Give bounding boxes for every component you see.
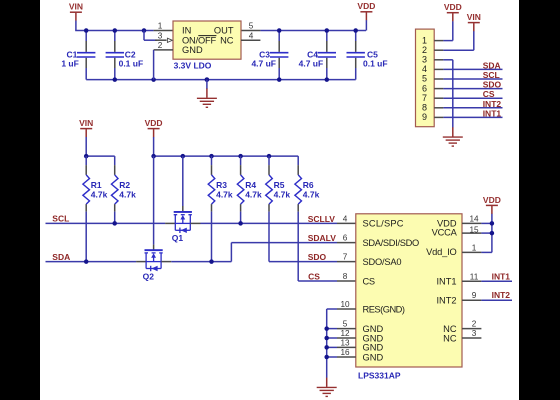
svg-text:CS: CS [363,276,375,286]
svg-text:Vdd_IO: Vdd_IO [426,247,457,257]
svg-text:5: 5 [343,320,348,329]
svg-text:INT1: INT1 [436,277,456,287]
svg-text:1: 1 [158,22,163,31]
svg-text:4.7k: 4.7k [274,189,291,199]
svg-text:IN: IN [182,26,191,36]
svg-text:0.1 uF: 0.1 uF [119,59,144,69]
svg-text:GND: GND [363,352,384,362]
svg-text:4.7k: 4.7k [119,189,136,199]
svg-text:13: 13 [340,338,350,347]
svg-text:4.7k: 4.7k [91,189,108,199]
svg-text:4.7k: 4.7k [216,189,233,199]
svg-text:8: 8 [343,272,348,281]
svg-text:Q2: Q2 [143,271,155,281]
svg-text:1: 1 [472,243,477,252]
svg-text:9: 9 [422,112,427,122]
svg-text:CS: CS [483,89,495,99]
svg-text:8: 8 [422,103,427,113]
svg-text:2: 2 [422,45,427,55]
svg-text:5: 5 [249,22,254,31]
svg-text:VDD: VDD [483,195,501,205]
svg-text:GND: GND [182,45,203,55]
svg-text:6: 6 [343,234,348,243]
svg-text:10: 10 [340,300,350,309]
svg-text:SCL: SCL [52,214,69,224]
svg-text:16: 16 [340,348,350,357]
svg-text:2: 2 [472,320,477,329]
svg-text:4.7 uF: 4.7 uF [251,59,276,69]
svg-text:3: 3 [158,31,163,40]
svg-text:INT2: INT2 [436,296,456,306]
svg-text:4.7k: 4.7k [303,189,320,199]
svg-text:NC: NC [443,333,457,343]
svg-text:5: 5 [422,74,427,84]
svg-text:1: 1 [422,35,427,45]
svg-text:SDALV: SDALV [308,233,337,243]
svg-text:SDO/SA0: SDO/SA0 [363,257,402,267]
svg-text:OUT: OUT [214,26,234,36]
svg-text:2: 2 [158,41,163,50]
svg-text:VDD: VDD [145,118,163,128]
svg-text:4.7k: 4.7k [245,189,262,199]
svg-text:VCCA: VCCA [432,228,458,238]
svg-text:7: 7 [422,93,427,103]
svg-text:VDD: VDD [357,1,375,11]
svg-text:SCLLV: SCLLV [308,214,336,224]
svg-text:SDO: SDO [308,252,327,262]
svg-text:INT2: INT2 [483,99,502,109]
svg-text:ON/OFF: ON/OFF [182,35,216,45]
svg-text:VIN: VIN [69,2,83,12]
svg-text:3: 3 [472,329,477,338]
svg-text:SCL: SCL [483,70,500,80]
svg-text:NC: NC [220,35,234,45]
svg-text:INT1: INT1 [483,108,502,118]
svg-text:VIN: VIN [467,12,481,22]
svg-text:7: 7 [343,253,348,262]
svg-text:6: 6 [422,83,427,93]
svg-text:SDA: SDA [52,252,70,262]
svg-text:4: 4 [343,214,348,223]
svg-text:VDD: VDD [444,2,462,12]
svg-text:INT2: INT2 [492,290,511,300]
svg-text:INT1: INT1 [492,271,511,281]
svg-text:SCL/SPC: SCL/SPC [363,219,404,229]
svg-text:4.7 uF: 4.7 uF [299,59,324,69]
svg-text:SDA/SDI/SDO: SDA/SDI/SDO [363,238,419,248]
svg-text:11: 11 [470,272,479,281]
svg-text:CS: CS [308,272,320,282]
svg-text:SDA: SDA [483,60,501,70]
svg-text:RES(GND): RES(GND) [363,304,405,314]
svg-text:Q1: Q1 [172,233,184,243]
svg-text:9: 9 [472,291,477,300]
svg-text:1 uF: 1 uF [61,59,78,69]
svg-text:3: 3 [422,55,427,65]
svg-text:4: 4 [249,31,254,40]
svg-text:GND: GND [363,343,384,353]
svg-text:12: 12 [340,329,350,338]
svg-text:VIN: VIN [79,118,93,128]
svg-text:SDO: SDO [483,80,502,90]
svg-text:0.1 uF: 0.1 uF [363,59,388,69]
svg-text:3.3V LDO: 3.3V LDO [174,61,212,71]
svg-text:14: 14 [469,214,479,223]
svg-text:LPS331AP: LPS331AP [358,370,401,380]
svg-text:4: 4 [422,64,427,74]
